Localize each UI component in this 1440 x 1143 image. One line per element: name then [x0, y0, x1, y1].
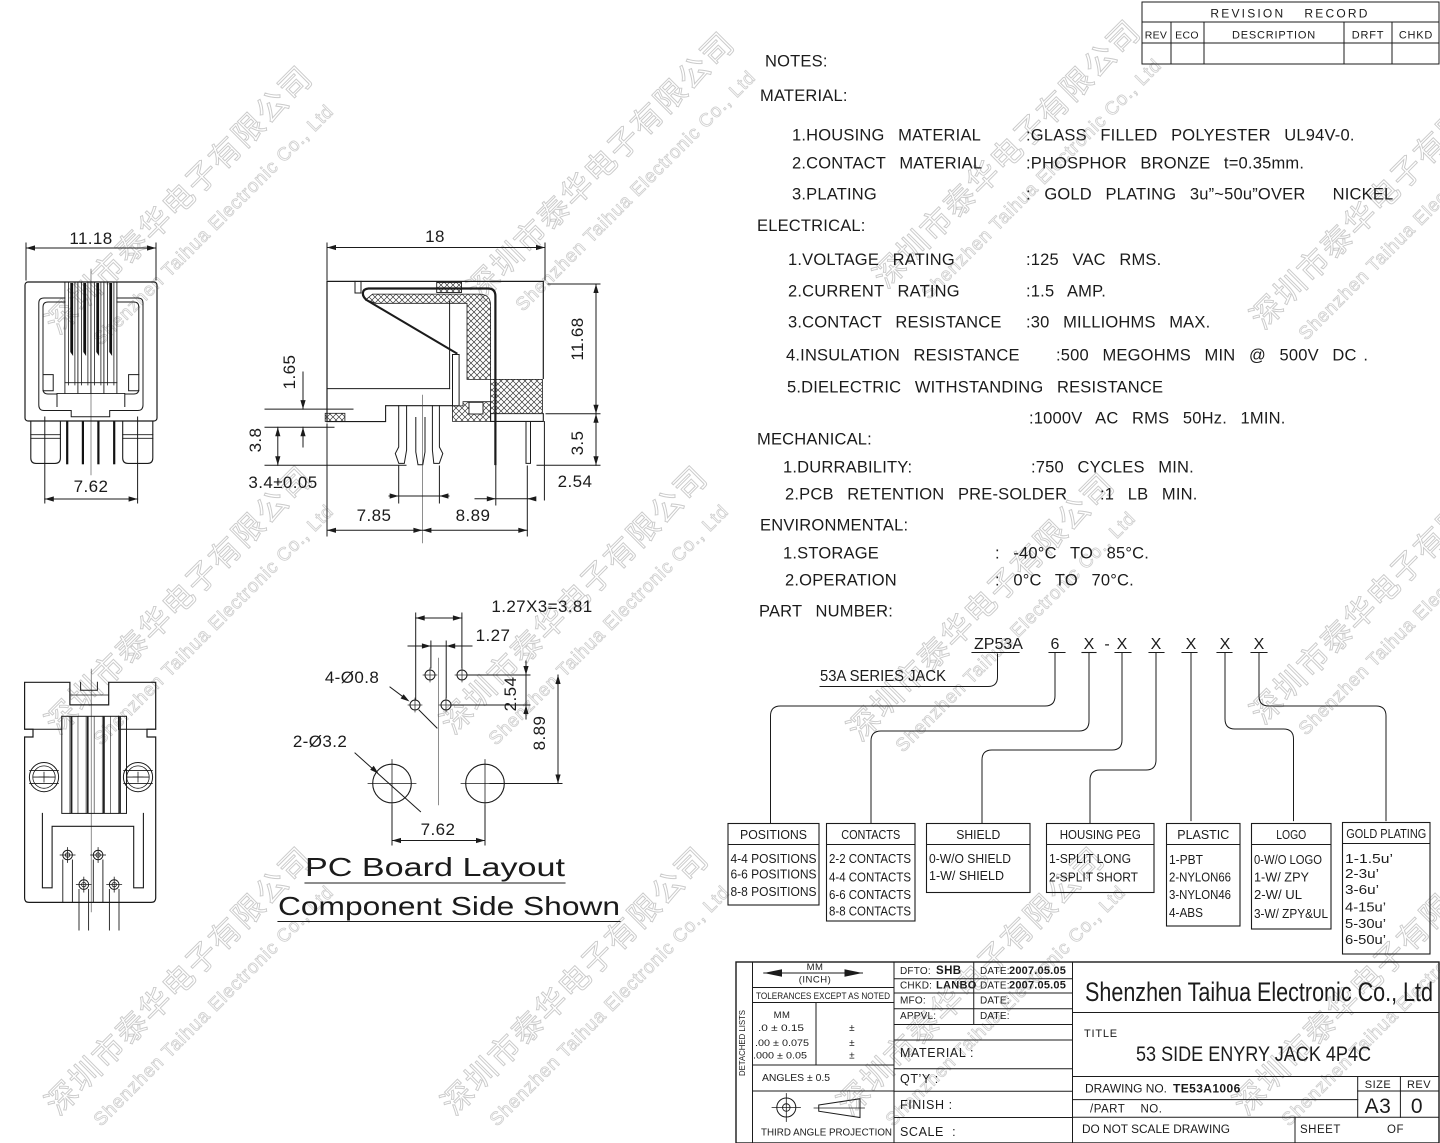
svg-text:1-W/ ZPY: 1-W/ ZPY — [1254, 870, 1309, 885]
svg-text:3.5: 3.5 — [568, 431, 587, 456]
svg-text:3.PLATING: 3.PLATING — [792, 186, 877, 204]
revision record table — [1142, 2, 1439, 64]
svg-text:SIZE: SIZE — [1365, 1079, 1391, 1091]
right rows — [1073, 1012, 1440, 1014]
pin stems — [63, 860, 73, 902]
title block — [736, 962, 1439, 1143]
left column rows — [753, 987, 895, 989]
lower-left hatch piece with pin window — [453, 402, 491, 422]
middle col rows — [894, 978, 1073, 980]
svg-text:DO NOT SCALE DRAWING: DO NOT SCALE DRAWING — [1082, 1124, 1230, 1136]
svg-text:1.VOLTAGE RATING: 1.VOLTAGE RATING — [788, 251, 955, 269]
svg-text:2007.05.05: 2007.05.05 — [1009, 980, 1066, 992]
svg-text:MECHANICAL:: MECHANICAL: — [757, 431, 872, 449]
svg-text:2-3u’: 2-3u’ — [1345, 866, 1379, 881]
svg-text:1.65: 1.65 — [280, 355, 299, 390]
svg-text:Shenzhen Taihua Electronic Co.: Shenzhen Taihua Electronic Co., Ltd — [1085, 977, 1433, 1007]
svg-text:2.CONTACT MATERIAL: 2.CONTACT MATERIAL — [792, 155, 982, 173]
svg-text:X: X — [1220, 636, 1231, 653]
svg-text:POSITIONS: POSITIONS — [740, 827, 807, 842]
central contact block — [62, 716, 127, 813]
small holes — [425, 670, 435, 680]
svg-text:5-30u’: 5-30u’ — [1345, 916, 1386, 931]
svg-text:APPVL:: APPVL: — [900, 1011, 936, 1022]
bottom-right hatch block — [491, 379, 543, 413]
svg-text:4-15u’: 4-15u’ — [1345, 900, 1386, 915]
svg-text:2-W/ UL: 2-W/ UL — [1254, 887, 1302, 902]
svg-text::PHOSPHOR BRONZE t=0.35mm.: :PHOSPHOR BRONZE t=0.35mm. — [1026, 155, 1304, 173]
svg-text:PC Board Layout: PC Board Layout — [305, 852, 566, 882]
svg-text:7.62: 7.62 — [74, 477, 109, 496]
lower bracket — [42, 813, 143, 887]
svg-text:DRAWING NO.: DRAWING NO. — [1085, 1084, 1167, 1096]
svg-text:2.54: 2.54 — [558, 472, 593, 491]
dim 2.54 vertical — [467, 674, 530, 676]
svg-text:4-4 CONTACTS: 4-4 CONTACTS — [829, 870, 911, 885]
svg-text:8-8 CONTACTS: 8-8 CONTACTS — [829, 904, 911, 919]
svg-text:0-W/O LOGO: 0-W/O LOGO — [1254, 852, 1322, 867]
svg-text:2-Ø3.2: 2-Ø3.2 — [293, 732, 347, 751]
svg-text:1-PBT: 1-PBT — [1169, 852, 1203, 867]
dim 11.68 right — [548, 283, 600, 285]
svg-text:ELECTRICAL:: ELECTRICAL: — [757, 217, 866, 235]
svg-text:3.CONTACT RESISTANCE: 3.CONTACT RESISTANCE — [788, 314, 1002, 332]
svg-text:GOLD PLATING: GOLD PLATING — [1346, 826, 1426, 841]
svg-text:1.DURRABILITY:: 1.DURRABILITY: — [783, 459, 912, 477]
svg-text:1.27X3=3.81: 1.27X3=3.81 — [491, 597, 592, 616]
svg-text:HOUSING PEG: HOUSING PEG — [1060, 827, 1141, 842]
svg-text:3.8: 3.8 — [246, 428, 265, 453]
svg-text:11.18: 11.18 — [69, 229, 112, 248]
svg-text:TE53A1006: TE53A1006 — [1173, 1082, 1241, 1096]
jack opening outline (outer contour) — [39, 298, 143, 417]
svg-text:1-SPLIT LONG: 1-SPLIT LONG — [1049, 851, 1131, 866]
svg-text:2-SPLIT SHORT: 2-SPLIT SHORT — [1049, 870, 1138, 885]
pc board layout view — [278, 597, 620, 922]
front view of jack — [25, 229, 157, 503]
svg-text:X: X — [1186, 636, 1197, 653]
svg-text:.0 ± 0.15: .0 ± 0.15 — [758, 1023, 804, 1034]
svg-text:±: ± — [849, 1023, 855, 1034]
contact holder strip — [453, 355, 460, 406]
centerline — [90, 269, 92, 475]
dim 7.62 bottom — [44, 417, 46, 503]
svg-text:X: X — [1254, 636, 1265, 653]
svg-text:53A SERIES JACK: 53A SERIES JACK — [820, 668, 946, 685]
center pin — [416, 418, 425, 465]
svg-text:DFTO:: DFTO: — [900, 966, 931, 977]
svg-text:ZP53A: ZP53A — [974, 636, 1023, 653]
svg-text:3-NYLON46: 3-NYLON46 — [1169, 887, 1231, 902]
svg-text::30 MILLIOHMS MAX.: :30 MILLIOHMS MAX. — [1026, 314, 1210, 332]
svg-text:2-2 CONTACTS: 2-2 CONTACTS — [829, 851, 911, 866]
svg-text::1.5 AMP.: :1.5 AMP. — [1026, 283, 1106, 301]
svg-text:±: ± — [849, 1051, 855, 1062]
contact comb vertical walls — [64, 282, 66, 393]
svg-text:4.INSULATION RESISTANCE: 4.INSULATION RESISTANCE — [786, 347, 1020, 365]
svg-text:2-NYLON66: 2-NYLON66 — [1169, 870, 1231, 885]
svg-text:6: 6 — [1051, 636, 1060, 653]
svg-text:CONTACTS: CONTACTS — [841, 827, 900, 842]
second prong — [432, 406, 442, 464]
svg-text:TITLE: TITLE — [1084, 1028, 1118, 1040]
svg-text:MATERIAL:: MATERIAL: — [760, 87, 848, 105]
hatch L-band (top + right vertical) — [366, 294, 491, 379]
svg-text:FINISH :: FINISH : — [900, 1098, 953, 1112]
svg-text:OF: OF — [1387, 1124, 1404, 1136]
svg-text:3.4±0.05: 3.4±0.05 — [248, 473, 317, 492]
svg-text:MATERIAL :: MATERIAL : — [900, 1046, 974, 1060]
svg-text:3-W/ ZPY&UL: 3-W/ ZPY&UL — [1254, 906, 1328, 921]
svg-text:1-1.5u’: 1-1.5u’ — [1345, 851, 1393, 866]
svg-text:TOLERANCES EXCEPT AS NOTED: TOLERANCES EXCEPT AS NOTED — [756, 991, 890, 1002]
svg-text:0-W/O SHIELD: 0-W/O SHIELD — [929, 851, 1011, 866]
svg-text:ANGLES ± 0.5: ANGLES ± 0.5 — [762, 1072, 830, 1084]
svg-text:7.85: 7.85 — [357, 506, 392, 525]
svg-text:6-6 POSITIONS: 6-6 POSITIONS — [731, 867, 817, 882]
bottom contour with pegs — [327, 406, 453, 422]
svg-text:(INCH): (INCH) — [799, 975, 832, 986]
svg-text:SCALE :: SCALE : — [900, 1125, 956, 1139]
svg-text:LANBO: LANBO — [936, 980, 977, 992]
svg-text:8-8 POSITIONS: 8-8 POSITIONS — [731, 884, 817, 899]
svg-text:SHB: SHB — [936, 965, 961, 977]
svg-text:4-ABS: 4-ABS — [1169, 905, 1203, 920]
step lines — [25, 728, 62, 730]
svg-text:/PART NO.: /PART NO. — [1090, 1104, 1162, 1116]
svg-text:: GOLD PLATING 3u”~50u”OVER: : GOLD PLATING 3u”~50u”OVER NICKEL — [1026, 186, 1393, 204]
svg-text:5.DIELECTRIC WITHSTANDING RE: 5.DIELECTRIC WITHSTANDING RESISTANCE — [787, 379, 1163, 397]
svg-text:0: 0 — [1411, 1095, 1423, 1118]
svg-text:2.54: 2.54 — [501, 677, 520, 712]
body outline — [327, 281, 543, 421]
svg-text:DATE:: DATE: — [980, 996, 1010, 1007]
s-curves — [771, 653, 1056, 824]
svg-text:.000 ± 0.05: .000 ± 0.05 — [753, 1051, 807, 1062]
svg-text:3-6u’: 3-6u’ — [1345, 882, 1379, 897]
outer body — [25, 282, 157, 421]
svg-text:A3: A3 — [1365, 1095, 1392, 1118]
third angle projection symbol — [777, 1098, 796, 1117]
outer body — [25, 682, 156, 902]
svg-text:6-6 CONTACTS: 6-6 CONTACTS — [829, 887, 911, 902]
pins with circles — [63, 850, 73, 860]
inner verticals and floor — [449, 301, 451, 388]
svg-text:2.PCB RETENTION PRE-SOLDER: 2.PCB RETENTION PRE-SOLDER — [785, 486, 1067, 504]
blades (black) — [70, 283, 73, 356]
svg-text:.00 ± 0.075: .00 ± 0.075 — [755, 1038, 809, 1049]
svg-text:MM: MM — [774, 1010, 791, 1021]
svg-text:2007.05.05: 2007.05.05 — [1009, 965, 1066, 977]
svg-text:REVISION RECORD: REVISION RECORD — [1210, 7, 1369, 21]
svg-text:1-W/ SHIELD: 1-W/ SHIELD — [929, 868, 1004, 883]
svg-text:: -40°C TO 85°C.: : -40°C TO 85°C. — [995, 545, 1149, 563]
dim 3.5 right — [537, 464, 600, 466]
svg-text:8.89: 8.89 — [530, 716, 549, 751]
svg-text:REV: REV — [1145, 30, 1168, 42]
svg-text:PLASTIC: PLASTIC — [1177, 827, 1229, 842]
svg-text:NOTES:: NOTES: — [765, 53, 828, 71]
small tab in top slot — [81, 682, 98, 690]
svg-text:Component Side Shown: Component Side Shown — [278, 891, 620, 921]
svg-text:LOGO: LOGO — [1276, 827, 1306, 842]
svg-text:53 SIDE ENYRY JACK 4P4C: 53 SIDE ENYRY JACK 4P4C — [1136, 1043, 1371, 1066]
svg-text:X: X — [1117, 636, 1128, 653]
svg-text:DETACHED LISTS: DETACHED LISTS — [738, 1010, 747, 1076]
pins (4 black) — [66, 421, 68, 464]
svg-text:1.HOUSING MATERIAL: 1.HOUSING MATERIAL — [792, 127, 981, 145]
svg-text::1000V AC RMS 50Hz. 1MIN.: :1000V AC RMS 50Hz. 1MIN. — [1029, 410, 1286, 428]
svg-text:4-Ø0.8: 4-Ø0.8 — [325, 668, 379, 687]
bottom view of jack — [25, 669, 156, 930]
dim 7.62 — [391, 805, 393, 845]
svg-text:2.CURRENT RATING: 2.CURRENT RATING — [788, 283, 960, 301]
svg-text:ENVIRONMENTAL:: ENVIRONMENTAL: — [760, 517, 908, 535]
svg-text::GLASS FILLED POLYESTER UL9: :GLASS FILLED POLYESTER UL94V-0. — [1026, 127, 1355, 145]
svg-text:18: 18 — [425, 227, 445, 246]
svg-text:DRFT: DRFT — [1352, 30, 1385, 42]
svg-text::125 VAC RMS.: :125 VAC RMS. — [1026, 251, 1161, 269]
right bottom region — [491, 414, 544, 422]
svg-text:DATE:: DATE: — [980, 981, 1010, 992]
part number tree — [728, 636, 1430, 954]
small hatched pad bottom-left — [325, 413, 345, 421]
svg-text:±: ± — [849, 1038, 855, 1049]
inner contour — [43, 302, 139, 407]
top tab (hatched) — [437, 282, 462, 292]
slots bottom lines — [65, 382, 117, 384]
svg-text:MM: MM — [807, 962, 824, 973]
svg-text:CHKD: CHKD — [1399, 30, 1433, 42]
right peg — [526, 422, 531, 464]
latch bumps left/right — [43, 375, 53, 391]
svg-text:1.27: 1.27 — [476, 626, 511, 645]
dim 8.89 vertical — [490, 783, 562, 785]
front split peg prongs — [395, 406, 406, 464]
svg-text:4-4 POSITIONS: 4-4 POSITIONS — [731, 851, 817, 866]
svg-text:X: X — [1084, 636, 1095, 653]
svg-text:CHKD:: CHKD: — [900, 981, 932, 992]
diagonal contact spring — [367, 300, 457, 353]
svg-text:11.68: 11.68 — [568, 317, 587, 360]
svg-text:REV: REV — [1407, 1079, 1431, 1091]
svg-text:7.62: 7.62 — [421, 820, 456, 839]
svg-text:ECO: ECO — [1175, 30, 1199, 42]
notes text block — [757, 53, 1393, 621]
svg-text::500 MEGOHMS MIN @ 500V D: :500 MEGOHMS MIN @ 500V DC . — [1056, 347, 1368, 365]
dim 1.65 and 3.8 left — [265, 408, 353, 410]
svg-text:-: - — [1104, 636, 1109, 653]
bottom pegs — [31, 421, 61, 463]
top-left notch — [355, 281, 361, 293]
shield thick outline (black) — [363, 289, 496, 465]
svg-text:QT’Y :: QT’Y : — [900, 1072, 939, 1086]
svg-text:SHIELD: SHIELD — [956, 827, 1000, 842]
svg-text:DATE:: DATE: — [980, 1011, 1010, 1022]
svg-text:1.STORAGE: 1.STORAGE — [783, 545, 879, 563]
screws left/right — [29, 763, 58, 792]
svg-text::750 CYCLES MIN.: :750 CYCLES MIN. — [1031, 459, 1194, 477]
svg-text:2.OPERATION: 2.OPERATION — [785, 572, 897, 590]
svg-text:6-50u’: 6-50u’ — [1345, 932, 1386, 947]
side view of jack — [246, 227, 600, 543]
svg-text:DATE:: DATE: — [980, 966, 1010, 977]
big holes — [373, 764, 412, 803]
dims 7.85 / 8.89 — [326, 424, 328, 536]
svg-text:8.89: 8.89 — [456, 506, 491, 525]
svg-text:X: X — [1151, 636, 1162, 653]
svg-text::1 LB MIN.: :1 LB MIN. — [1100, 486, 1198, 504]
svg-text:DESCRIPTION: DESCRIPTION — [1232, 30, 1316, 42]
svg-text:PART NUMBER:: PART NUMBER: — [759, 603, 893, 621]
watermark layer — [33, 53, 321, 341]
outer + main verticals — [736, 962, 1439, 1143]
svg-text:MFO:: MFO: — [900, 996, 926, 1007]
svg-text:SHEET: SHEET — [1300, 1124, 1341, 1136]
svg-text:: 0°C TO 70°C.: : 0°C TO 70°C. — [995, 572, 1134, 590]
svg-text:THIRD ANGLE PROJECTION: THIRD ANGLE PROJECTION — [761, 1128, 892, 1139]
